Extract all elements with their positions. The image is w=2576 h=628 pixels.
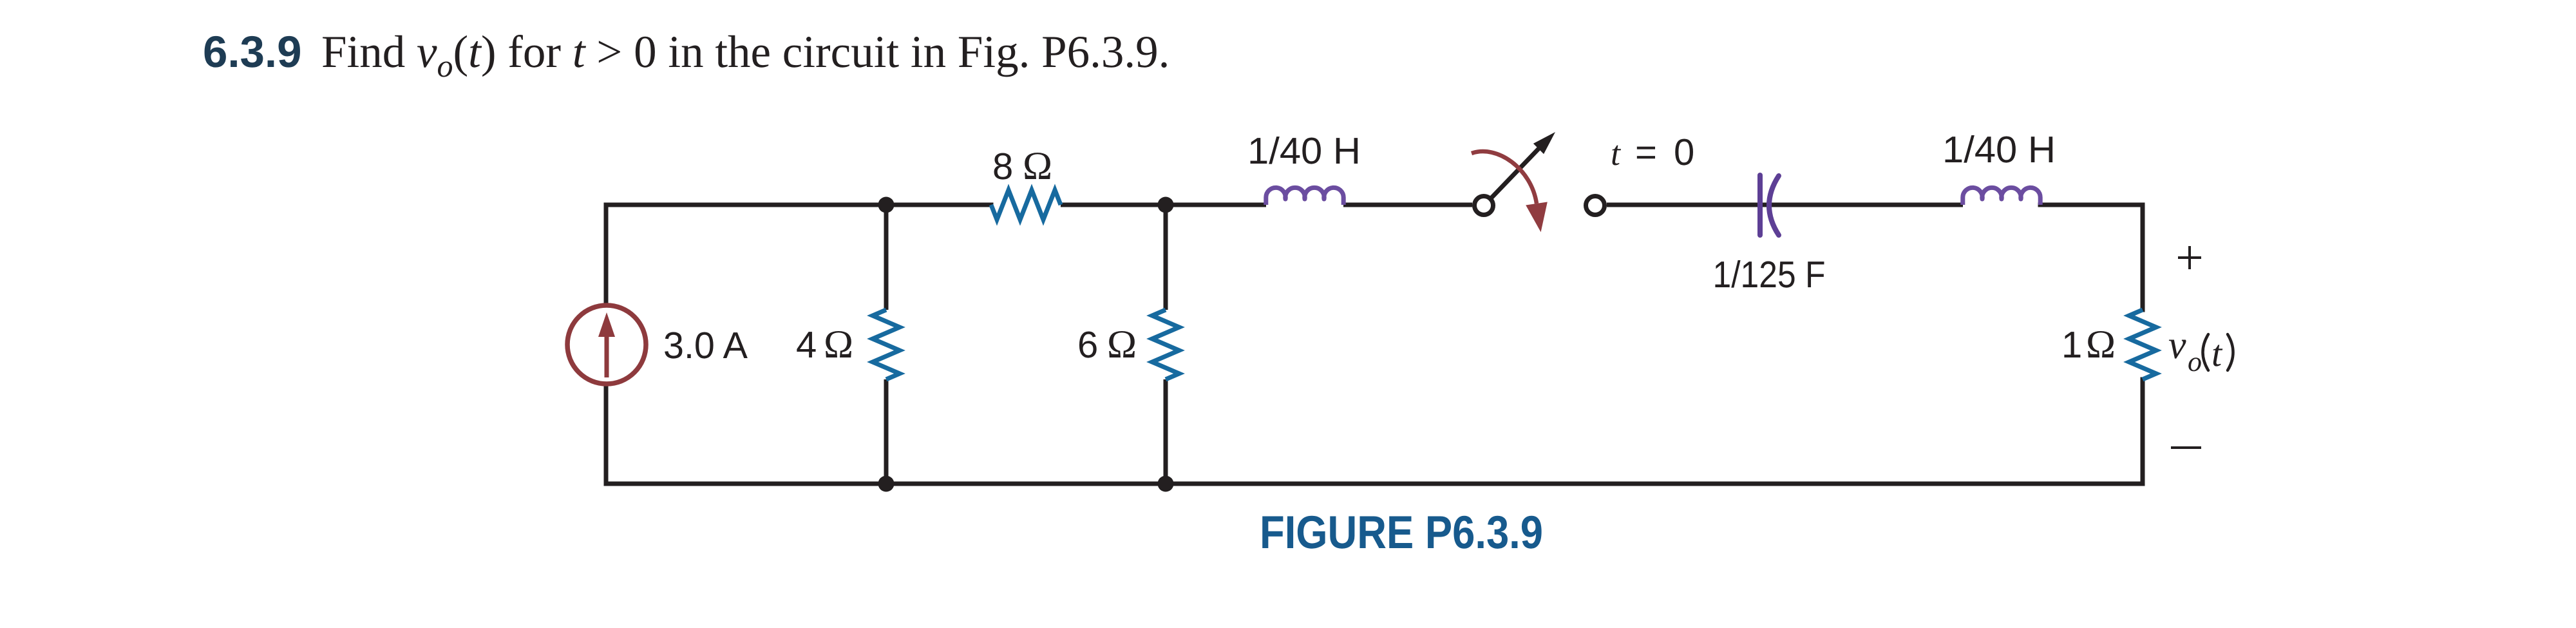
svg-text:o: o bbox=[2188, 346, 2202, 377]
svg-text:4Ω: 4Ω bbox=[796, 323, 853, 366]
svg-text:8Ω: 8Ω bbox=[992, 144, 1052, 188]
wire: segment from switch right terminal through capacitor bbox=[1607, 203, 1963, 207]
wire: left vertical above current source bbox=[604, 205, 609, 305]
wire: left vertical below current source bbox=[604, 384, 609, 484]
wire: segment from second inductor to top-right corner bbox=[2040, 203, 2143, 207]
polarity plus sign bbox=[2178, 246, 2201, 269]
label 1 ohm bbox=[2061, 323, 2116, 366]
node A (top, 8-ohm left) bbox=[878, 197, 895, 213]
switch SW1: motion arc arrow (maroon) bbox=[1472, 151, 1548, 232]
label 1/40 H (left inductor) bbox=[1247, 130, 1361, 172]
label 4 ohm bbox=[796, 323, 853, 366]
wire: right vertical above 1-ohm resistor bbox=[2141, 205, 2145, 310]
capacitor C1 1/125 F: straight plate bbox=[1757, 175, 1763, 235]
inductor L1 1/40 H bbox=[1266, 187, 1343, 205]
label vo(t) output voltage bbox=[2168, 323, 2233, 377]
wire: top segment between first inductor and switch left terminal bbox=[1343, 203, 1472, 207]
svg-text:6.3.9: 6.3.9 bbox=[203, 27, 301, 77]
svg-text:1/40 H: 1/40 H bbox=[1247, 130, 1361, 172]
switch SW1: arm with arrowhead bbox=[1491, 132, 1555, 198]
svg-text:1/40 H: 1/40 H bbox=[1942, 129, 2056, 171]
wire: top segment from top-left corner to 8-ohm resistor bbox=[606, 203, 991, 207]
svg-text:FIGURE P6.3.9: FIGURE P6.3.9 bbox=[1260, 507, 1543, 558]
label 1/125 F bbox=[1713, 254, 1826, 296]
wire: vertical below 6-ohm resistor bbox=[1164, 379, 1168, 484]
switch SW1: right terminal circle bbox=[1586, 196, 1605, 215]
resistor R3 6 ohm bbox=[1152, 310, 1179, 379]
wire: right vertical below 1-ohm resistor bbox=[2141, 379, 2145, 484]
inductor L2 1/40 H bbox=[1963, 187, 2040, 205]
wire: vertical above 6-ohm resistor bbox=[1164, 205, 1168, 310]
svg-text:t: t bbox=[2211, 332, 2223, 374]
label t = 0 bbox=[1611, 131, 1694, 173]
problem number 6.3.9 bbox=[203, 27, 301, 77]
svg-text:6Ω: 6Ω bbox=[1077, 323, 1137, 366]
capacitor C1 1/125 F: curved plate bbox=[1769, 176, 1779, 235]
svg-text:t=0: t=0 bbox=[1611, 131, 1694, 173]
svg-text:v: v bbox=[2168, 323, 2186, 367]
figure caption FIGURE P6.3.9 bbox=[1260, 507, 1543, 558]
wire: vertical above 4-ohm resistor bbox=[884, 205, 889, 310]
label 8 ohm bbox=[992, 144, 1052, 188]
label 6 ohm bbox=[1077, 323, 1137, 366]
node B (top, 6-ohm) bbox=[1158, 197, 1174, 213]
node C (bottom, under 4-ohm) bbox=[878, 476, 895, 492]
label 3.0 A bbox=[663, 325, 748, 366]
current source I1 3.0 A bbox=[567, 305, 646, 384]
wire: vertical below 4-ohm resistor bbox=[884, 379, 889, 484]
label 1/40 H (right inductor) bbox=[1942, 129, 2056, 171]
resistor R4 1 ohm bbox=[2129, 310, 2156, 379]
wire: top segment between 8-ohm resistor and first inductor bbox=[1061, 203, 1266, 207]
problem statement text bbox=[321, 27, 1170, 84]
svg-text:3.0 A: 3.0 A bbox=[663, 325, 748, 366]
switch SW1: left terminal circle bbox=[1475, 196, 1493, 215]
resistor R1 4 ohm bbox=[873, 310, 900, 379]
svg-text:Find vo(t) for t > 0 in the ci: Find vo(t) for t > 0 in the circuit in F… bbox=[321, 27, 1170, 84]
polarity minus sign bbox=[2171, 446, 2201, 449]
wire: bottom horizontal bbox=[606, 482, 2143, 486]
resistor R2 8 ohm bbox=[991, 190, 1061, 220]
svg-text:1Ω: 1Ω bbox=[2061, 323, 2116, 366]
svg-text:1/125 F: 1/125 F bbox=[1713, 254, 1826, 296]
node D (bottom, under 6-ohm) bbox=[1158, 476, 1174, 492]
